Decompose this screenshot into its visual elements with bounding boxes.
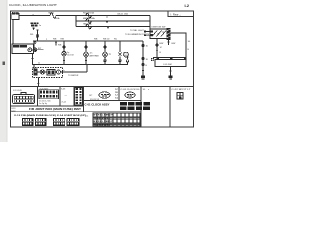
wire: battery to main fuse: [19, 15, 50, 17]
ground G2 (dimmer): [170, 67, 172, 76]
battery B1: [12, 13, 19, 19]
wire: lower right rail: [153, 57, 186, 59]
wire: main illumination rail: [33, 40, 143, 42]
main frame: [11, 11, 194, 127]
relay TNS: [12, 44, 34, 54]
bus line 2: [76, 20, 150, 22]
svg-text:SPOT: SPOT: [123, 52, 129, 54]
svg-text:X-13 F/B: X-13 F/B: [13, 90, 22, 92]
svg-text:100A: 100A: [55, 17, 60, 20]
svg-text:1m: 1m: [90, 53, 93, 55]
svg-text:B/W: B/W: [160, 43, 164, 45]
lamp 1m (ashtray illumination): [84, 39, 100, 65]
svg-text:1G: 1G: [188, 41, 191, 43]
svg-text:C-22 SPOT LT: C-22 SPOT LT: [172, 89, 192, 91]
cell5: codes + oval connector: [115, 89, 118, 99]
svg-text:1n 1p 1q: 1n 1p 1q: [39, 103, 47, 105]
svg-text:1m: 1m: [115, 97, 118, 99]
wire + ground G1 (right branch): [141, 41, 149, 79]
horizontal dividers: [11, 105, 84, 107]
svg-text:LIGHT: LIGHT: [123, 55, 130, 57]
clock symbol: [57, 70, 61, 74]
bus junction nodes with tap arrows: [106, 15, 107, 16]
svg-text:1J: 1J: [38, 63, 40, 65]
svg-text:1G: 1G: [143, 89, 146, 91]
wire: switch right branch: [171, 33, 186, 58]
wire: rail drop to relay: [34, 41, 36, 48]
svg-text:ROOM 15A: ROOM 15A: [83, 12, 94, 15]
wire: bus drop to main rail (node A): [37, 30, 39, 42]
wire: bus to ignition switch: [149, 16, 151, 29]
dashed box: meter illumination lamps: [33, 65, 63, 78]
wire: fuse to bus split node: [56, 15, 76, 17]
svg-text:TO ILLUMINATION SYSTEM: TO ILLUMINATION SYSTEM: [125, 33, 149, 36]
svg-text:F/B JOINT BOX (MAIN FUSE) INST: F/B JOINT BOX (MAIN FUSE) INST: [29, 108, 82, 111]
cell4: tall pin table: [75, 88, 83, 106]
wire: switch to lower rail: [156, 39, 158, 58]
fusible link icon: [31, 22, 39, 26]
fuse METER 10A: [86, 19, 91, 24]
svg-text:I : Rear→: I : Rear→: [170, 12, 182, 16]
fuse ROOM 15A: [86, 13, 91, 18]
svg-text:1C 1D 1J 1m: 1C 1D 1J 1m: [39, 100, 51, 102]
svg-text:XX-XX XX: XX-XX XX: [90, 99, 100, 101]
svg-text:1 2 3 4 5 6 7 8 9 0: 1 2 3 4 5 6 7 8 9 0: [94, 123, 111, 126]
svg-text:1 2 3 4 5 6 7 8 9 0: 1 2 3 4 5 6 7 8 9 0: [94, 117, 111, 120]
fuse MAIN 100A: [50, 13, 56, 18]
wire: drop to connector table: [38, 78, 40, 87]
svg-text:TAIL 15A: TAIL 15A: [83, 23, 92, 26]
scanned page left edge strip: [0, 0, 7, 142]
wire: ground rail: [33, 64, 129, 66]
svg-text:1J: 1J: [115, 95, 117, 97]
wire: relay to ground rail: [32, 54, 34, 65]
svg-text:MAIN: MAIN: [49, 11, 55, 14]
lamp spot light: [118, 33, 149, 65]
svg-text:R/B 1D: R/B 1D: [103, 39, 110, 41]
page background: [0, 0, 200, 142]
svg-text:B/W: B/W: [172, 43, 176, 45]
svg-text:IGNITION SW: IGNITION SW: [152, 27, 167, 29]
legend box top right: [168, 11, 194, 17]
svg-text:B W R G L Y BR O P: B W R G L Y BR O P: [94, 115, 114, 117]
meter block component: [47, 70, 55, 76]
svg-text:1q: 1q: [109, 54, 111, 56]
side tab label: [3, 62, 6, 66]
lamp 1p (clock illumination): [61, 39, 75, 65]
lamp meter illumination: [40, 70, 44, 74]
svg-text:I-2: I-2: [185, 4, 189, 8]
connector arrow below switch: [168, 40, 170, 45]
svg-text:1n: 1n: [39, 25, 41, 27]
svg-text:CLOCK, ILLUMINATION LIGHT: CLOCK, ILLUMINATION LIGHT: [9, 3, 57, 7]
ignition switch SW1: [144, 28, 171, 40]
svg-text:X-13 F/B (MAIN FUSE BLOCK) X-1: X-13 F/B (MAIN FUSE BLOCK) X-14 JOINT BO…: [14, 114, 86, 117]
row2 connector photo blocks: [22, 118, 34, 126]
svg-text:CLOCK: CLOCK: [67, 55, 75, 57]
svg-text:C-05 DIM: C-05 DIM: [163, 64, 172, 66]
svg-text:CB-01 15A: CB-01 15A: [117, 13, 128, 16]
svg-text:TO METER: TO METER: [68, 75, 79, 77]
bus line 3: [76, 26, 150, 28]
svg-text:ASHTRAY: ASHTRAY: [90, 54, 100, 57]
svg-text:C-01 CLOCK ILL: C-01 CLOCK ILL: [121, 89, 142, 91]
dark word block: [120, 102, 150, 110]
bus line 1: [76, 15, 150, 17]
fuse TAIL 15A: [86, 24, 91, 29]
wire: dashed box exit to ground rail: [61, 71, 88, 73]
lamp 1q (illumination): [103, 39, 111, 63]
dimmer switch C-05: [155, 58, 186, 67]
vertical cell dividers: [37, 87, 39, 107]
svg-text:TO TAIL LIGHT: TO TAIL LIGHT: [130, 29, 144, 32]
svg-text:METER 10A: METER 10A: [83, 17, 95, 20]
strip top divider: [11, 86, 194, 88]
svg-text:C-01 CLOCK ASSY: C-01 CLOCK ASSY: [85, 103, 111, 106]
svg-text:B W R G L Y BR O P: B W R G L Y BR O P: [94, 121, 114, 123]
